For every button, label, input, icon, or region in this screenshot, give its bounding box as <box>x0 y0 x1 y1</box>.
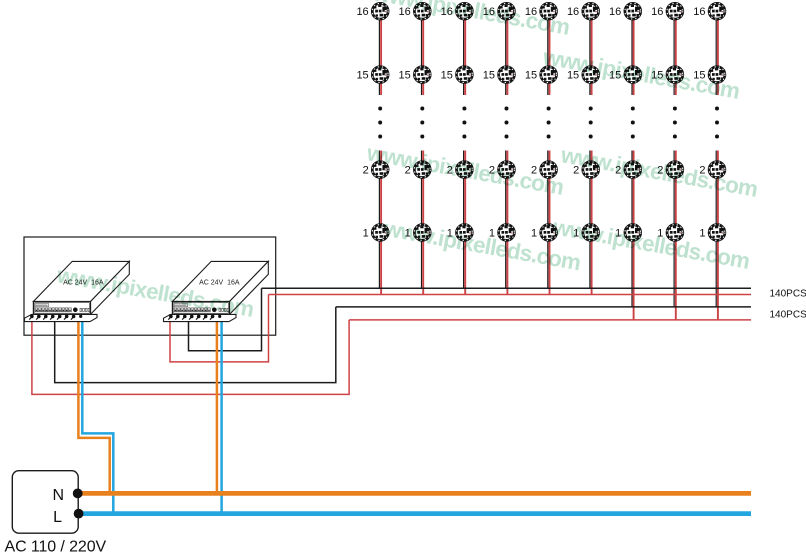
LED pixel column 9 row 1 <box>709 225 725 241</box>
power supply 2 spec sticker <box>174 304 188 307</box>
LED pixel column 1 row 1 <box>372 225 388 241</box>
svg-text:15: 15 <box>441 70 453 82</box>
LED pixel column 1 row 16 <box>372 3 388 19</box>
column 5 continuation dots <box>547 107 551 139</box>
LED pixel column 6 row 16 <box>583 3 599 19</box>
LED pixel column 8 row 1 <box>667 225 683 241</box>
power supply 2 output terminal block <box>174 308 210 312</box>
terminal N stud <box>73 489 83 499</box>
power supply 1 AC live wire (blue) <box>82 314 113 514</box>
power supply 1 output terminal block <box>35 308 71 312</box>
svg-text:16: 16 <box>356 6 368 18</box>
column 3 wire pair upper segment (black V- / red V+) <box>464 10 466 95</box>
column 7 continuation dots <box>631 107 635 139</box>
bus 1 red (V+) to power supply 2 <box>269 294 752 296</box>
LED pixel column 4 row 15 <box>499 67 515 83</box>
column 3 wire pair lower segment to bus <box>464 151 466 295</box>
svg-text:16: 16 <box>651 6 663 18</box>
svg-text:140PCS: 140PCS <box>770 289 806 300</box>
LED pixel column 3 row 1 <box>457 225 473 241</box>
neutral bus (orange) <box>78 491 751 496</box>
LED pixel column 8 row 16 <box>667 3 683 19</box>
power supply 1 red output wire to bus 2 <box>32 314 349 394</box>
column 7 wire pair lower segment to bus <box>632 151 634 320</box>
live bus (blue) <box>79 511 751 516</box>
power supply 1 mounting flange <box>25 314 98 321</box>
LED pixel column 7 row 15 <box>625 67 641 83</box>
LED pixel column 5 row 2 <box>541 162 557 178</box>
column 8 continuation dots <box>673 107 677 139</box>
power supply 2 adjust knob <box>212 308 217 313</box>
LED pixel column 6 row 15 <box>583 67 599 83</box>
column 5 wire pair upper segment (black V- / red V+) <box>548 10 550 95</box>
svg-text:1: 1 <box>531 228 537 240</box>
LED pixel column 3 row 16 <box>457 3 473 19</box>
LED pixel column 4 row 1 <box>499 225 515 241</box>
column 3 continuation dots <box>462 107 466 139</box>
svg-text:AC 24V 16A: AC 24V 16A <box>199 279 240 286</box>
LED pixel column 3 row 15 <box>457 67 473 83</box>
LED pixel column 8 row 2 <box>667 162 683 178</box>
column 7 wire pair upper segment (black V- / red V+) <box>632 10 634 95</box>
terminal L stud <box>74 509 84 519</box>
LED pixel column 4 row 2 <box>499 162 515 178</box>
column 8 wire pair upper segment (black V- / red V+) <box>674 10 676 95</box>
column 1 continuation dots <box>378 107 382 139</box>
bus 1 black (V-) to power supply 2 <box>262 287 752 289</box>
power supply 1 body (AC 24V 16A) <box>33 261 129 314</box>
svg-text:15: 15 <box>483 70 495 82</box>
LED pixel column 6 row 2 <box>583 162 599 178</box>
power supply 2 AC input terminals <box>219 308 229 311</box>
svg-text:2: 2 <box>363 165 369 177</box>
LED pixel column 2 row 16 <box>414 3 430 19</box>
LED pixel column 9 row 15 <box>709 67 725 83</box>
column 5 wire pair lower segment to bus <box>548 151 550 295</box>
column 9 wire pair upper segment (black V- / red V+) <box>716 10 718 95</box>
power supply 1 AC neutral wire (orange) <box>78 314 109 493</box>
power supply 2 red output wire to bus 1 <box>170 295 269 362</box>
column 2 continuation dots <box>420 107 424 139</box>
LED pixel column 5 row 1 <box>541 225 557 241</box>
LED pixel column 7 row 1 <box>625 225 641 241</box>
LED pixel column 4 row 16 <box>499 3 515 19</box>
power supply 2 AC neutral wire (orange) <box>216 314 219 493</box>
svg-text:L: L <box>53 509 62 526</box>
column 2 wire pair upper segment (black V- / red V+) <box>422 10 424 95</box>
svg-text:16: 16 <box>609 6 621 18</box>
power supply 2 AC live wire (blue) <box>220 314 223 514</box>
LED pixel column 2 row 15 <box>414 67 430 83</box>
column 4 wire pair upper segment (black V- / red V+) <box>506 10 508 95</box>
LED pixel column 3 row 2 <box>457 162 473 178</box>
bus 2 red (V+) to power supply 1 <box>349 319 751 321</box>
power supply 2 mounting flange <box>164 314 237 321</box>
svg-text:16: 16 <box>693 6 705 18</box>
column 9 wire pair lower segment to bus <box>716 151 718 320</box>
svg-text:AC 110 / 220V: AC 110 / 220V <box>5 539 107 556</box>
LED pixel column 1 row 15 <box>372 67 388 83</box>
LED pixel column 9 row 2 <box>709 162 725 178</box>
LED pixel column 5 row 16 <box>541 3 557 19</box>
column 6 continuation dots <box>589 107 593 139</box>
power-supply enclosure outline <box>24 237 276 335</box>
column 1 wire pair lower segment to bus <box>379 151 381 295</box>
column 6 wire pair lower segment to bus <box>590 151 592 295</box>
svg-text:15: 15 <box>525 70 537 82</box>
LED pixel column 6 row 1 <box>583 225 599 241</box>
LED pixel column 8 row 15 <box>667 67 683 83</box>
power supply 2 body (AC 24V 16A) <box>172 261 268 314</box>
column 4 wire pair lower segment to bus <box>506 151 508 295</box>
LED pixel column 7 row 2 <box>625 162 641 178</box>
power supply 1 adjust knob <box>73 308 78 313</box>
svg-text:1: 1 <box>699 228 705 240</box>
column 1 wire pair upper segment (black V- / red V+) <box>379 10 381 95</box>
AC mains source box <box>12 471 78 534</box>
power supply 2 black output wire to bus 1 <box>189 288 262 351</box>
power supply 1 black output wire to bus 2 <box>55 307 336 383</box>
LED pixel column 2 row 1 <box>414 225 430 241</box>
svg-text:15: 15 <box>399 70 411 82</box>
svg-text:15: 15 <box>356 70 368 82</box>
svg-text:140PCS: 140PCS <box>770 310 806 321</box>
column 4 continuation dots <box>505 107 509 139</box>
LED pixel column 5 row 15 <box>541 67 557 83</box>
svg-text:N: N <box>52 487 64 504</box>
power supply 1 spec sticker <box>35 304 49 307</box>
bus 2 black (V-) to power supply 1 <box>336 306 751 308</box>
power supply 1 terminal screws <box>29 315 82 320</box>
column 6 wire pair upper segment (black V- / red V+) <box>590 10 592 95</box>
svg-text:1: 1 <box>363 228 369 240</box>
LED pixel column 2 row 2 <box>414 162 430 178</box>
power supply 2 terminal screws <box>168 315 221 320</box>
LED pixel column 9 row 16 <box>709 3 725 19</box>
LED pixel column 1 row 2 <box>372 162 388 178</box>
column 8 wire pair lower segment to bus <box>674 151 676 320</box>
power supply 1 AC input terminals <box>80 308 90 311</box>
column 9 continuation dots <box>715 107 719 139</box>
column 2 wire pair lower segment to bus <box>422 151 424 295</box>
LED pixel column 7 row 16 <box>625 3 641 19</box>
